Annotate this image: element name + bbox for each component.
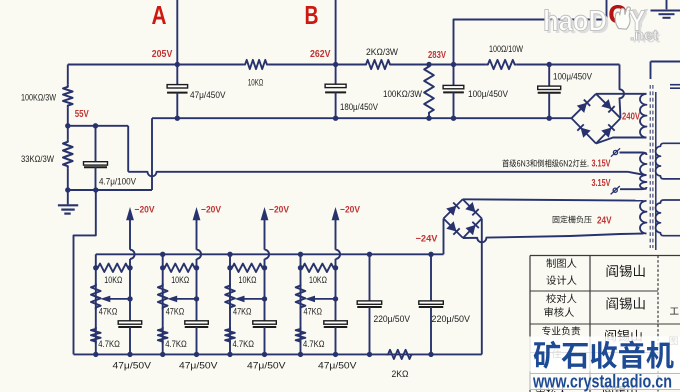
svg-text:47μ/50V: 47μ/50V	[318, 360, 357, 371]
svg-text:47KΩ: 47KΩ	[166, 305, 185, 316]
svg-text:47KΩ: 47KΩ	[304, 305, 323, 316]
svg-text:−20V: −20V	[340, 205, 361, 215]
svg-text:24V: 24V	[597, 216, 612, 227]
svg-text:−20V: −20V	[135, 205, 156, 215]
svg-text:3.15V: 3.15V	[592, 159, 611, 170]
svg-text:4.7KΩ: 4.7KΩ	[303, 338, 325, 349]
svg-text:−20V: −20V	[269, 205, 290, 215]
svg-text:4.7KΩ: 4.7KΩ	[233, 338, 255, 349]
svg-text:240V: 240V	[622, 112, 640, 123]
svg-text:10KΩ: 10KΩ	[104, 274, 122, 285]
svg-text:220μ/50V: 220μ/50V	[374, 313, 411, 324]
svg-text:100KΩ/3W: 100KΩ/3W	[383, 88, 422, 99]
svg-text:283V: 283V	[428, 50, 446, 61]
svg-text:47μ/50V: 47μ/50V	[113, 360, 152, 371]
svg-text:262V: 262V	[310, 49, 331, 60]
svg-text:10KΩ: 10KΩ	[248, 77, 264, 88]
svg-text:47μ/450V: 47μ/450V	[190, 89, 226, 100]
svg-text:47μ/50V: 47μ/50V	[179, 360, 218, 371]
svg-text:100Ω/10W: 100Ω/10W	[489, 43, 523, 54]
svg-text:100KΩ/3W: 100KΩ/3W	[21, 92, 56, 103]
svg-text:A: A	[152, 0, 167, 30]
svg-text:.net: .net	[630, 27, 658, 44]
svg-text:10KΩ: 10KΩ	[171, 274, 189, 285]
svg-text:220μ/50V: 220μ/50V	[432, 313, 471, 324]
svg-text:2KΩ/3W: 2KΩ/3W	[366, 46, 398, 57]
svg-text:B: B	[305, 0, 319, 30]
svg-text:100μ/450V: 100μ/450V	[553, 71, 593, 82]
svg-text:47KΩ: 47KΩ	[99, 305, 118, 316]
svg-text:2KΩ: 2KΩ	[392, 368, 409, 379]
svg-text:180μ/450V: 180μ/450V	[340, 101, 379, 112]
svg-text:4.7μ/100V: 4.7μ/100V	[99, 175, 137, 186]
svg-text:−24V: −24V	[416, 234, 439, 245]
svg-text:47μ/50V: 47μ/50V	[247, 360, 286, 371]
svg-text:205V: 205V	[152, 49, 173, 60]
svg-text:33KΩ/3W: 33KΩ/3W	[21, 153, 54, 164]
svg-text:−20V: −20V	[201, 205, 222, 215]
svg-text:4.7KΩ: 4.7KΩ	[165, 338, 187, 349]
svg-text:4.7KΩ: 4.7KΩ	[98, 338, 120, 349]
svg-text:10KΩ: 10KΩ	[309, 274, 327, 285]
svg-text:100μ/450V: 100μ/450V	[468, 88, 509, 99]
svg-text:55V: 55V	[75, 109, 89, 120]
svg-text:10KΩ: 10KΩ	[239, 274, 257, 285]
svg-text:3.15V: 3.15V	[592, 178, 611, 189]
svg-text:haoD: haoD	[543, 6, 607, 38]
svg-text:www.crystalradio.cn: www.crystalradio.cn	[532, 371, 672, 392]
svg-text:47KΩ: 47KΩ	[233, 305, 252, 316]
